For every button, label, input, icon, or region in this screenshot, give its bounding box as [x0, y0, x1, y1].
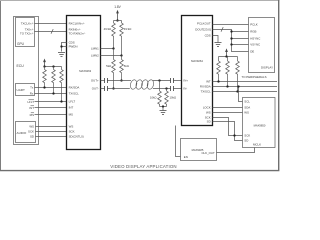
node R3-OUT-: [112, 87, 114, 89]
wire WS to DAC: [213, 112, 243, 114]
svg-text:SD: SD: [244, 139, 248, 143]
ground CDS deserializer: [215, 43, 222, 47]
svg-text:SD: SD: [207, 120, 211, 124]
resistor pullup R-SCL2: [236, 57, 240, 92]
svg-text:5kΩ: 5kΩ: [106, 64, 111, 68]
deserializer U2 MAX9264: [182, 16, 213, 126]
wire IN+ line: [153, 80, 171, 82]
node LMN1: [112, 47, 114, 49]
svg-text:5kΩ: 5kΩ: [124, 64, 129, 68]
node R-SDA2: [226, 85, 228, 87]
svg-text:TO RXIN2+/-: TO RXIN2+/-: [69, 32, 86, 36]
wire DOUT bus: [213, 30, 249, 52]
svg-text:OUT-: OUT-: [92, 87, 99, 91]
svg-text:MS: MS: [30, 113, 34, 117]
svg-text:PCLK: PCLK: [250, 23, 258, 27]
UART: [16, 84, 35, 96]
supply 1.8V: [114, 5, 121, 9]
resistor pullup R-SCL: [52, 67, 56, 94]
svg-text:SD(CNTL0): SD(CNTL0): [69, 135, 84, 139]
ground 10k: [162, 107, 164, 111]
resistor pullup R-SDA: [43, 67, 47, 88]
wire CDS deserializer: [213, 36, 219, 43]
wire TXCLK: [35, 23, 67, 25]
wire OUT+: [101, 80, 105, 82]
svg-text:Tx: Tx: [30, 85, 34, 89]
supply arrow left pullup rail: [43, 59, 46, 67]
wire 10k join: [160, 106, 167, 108]
svg-text:HSYNC: HSYNC: [250, 36, 260, 40]
svg-text:PWDN: PWDN: [69, 45, 78, 49]
svg-text:MAX9263: MAX9263: [79, 69, 91, 73]
svg-text:10kΩ: 10kΩ: [150, 96, 157, 100]
resistor R3 5k: [106, 49, 115, 89]
wire SDA branch to DAC SCL: [239, 87, 243, 102]
wire pullup rail: [45, 66, 62, 68]
svg-text:AUDIO: AUDIO: [17, 131, 27, 135]
svg-text:GPU: GPU: [17, 42, 25, 46]
svg-text:MAX9850: MAX9850: [254, 124, 266, 128]
svg-text:CDS: CDS: [205, 34, 211, 38]
svg-text:TXCLK+/-: TXCLK+/-: [21, 21, 34, 25]
node R-INT2: [217, 80, 219, 82]
wire SCL out: [213, 91, 278, 93]
svg-text:SDA: SDA: [244, 106, 250, 110]
capacitor C3: [171, 78, 174, 83]
svg-text:MAX9264: MAX9264: [191, 59, 203, 63]
node R-SCL2: [236, 90, 238, 92]
node pullup joints: [43, 86, 45, 88]
svg-text:SCK: SCK: [28, 130, 34, 134]
display box: [249, 18, 275, 73]
svg-text:49.9Ω: 49.9Ω: [104, 27, 112, 31]
svg-text:WS: WS: [69, 125, 74, 129]
GPU: [16, 18, 35, 47]
resistor R1 49.9: [104, 21, 116, 49]
wire CDS tie: [62, 43, 67, 52]
wire OUT-: [101, 88, 105, 90]
node INT label: [29, 106, 34, 110]
svg-text:RX/SDA: RX/SDA: [69, 86, 80, 90]
wire UART Rx/SCL: [35, 93, 67, 95]
wire SD to DAC: [213, 122, 243, 141]
supply arrow right pullup rail: [225, 48, 228, 56]
svg-text:TX/SCL: TX/SCL: [69, 92, 80, 96]
svg-text:LFLT: LFLT: [69, 100, 76, 104]
resistor R5 10k: [150, 81, 161, 107]
svg-text:INT: INT: [206, 80, 211, 84]
svg-text:10kΩ: 10kΩ: [170, 96, 177, 100]
svg-text:49.9Ω: 49.9Ω: [124, 27, 132, 31]
svg-text:EN: EN: [184, 155, 188, 159]
wire IN- line: [153, 88, 171, 90]
svg-text:LMN2: LMN2: [91, 54, 99, 58]
wire right rail: [219, 56, 238, 58]
svg-text:SCK: SCK: [244, 134, 250, 138]
svg-text:DE: DE: [250, 49, 254, 53]
wire SCK to DAC: [213, 118, 243, 136]
svg-text:SCL: SCL: [244, 100, 250, 104]
svg-text:SD: SD: [30, 135, 34, 139]
node 10k IN-: [165, 87, 167, 89]
node right rail: [225, 55, 227, 57]
border frame: [0, 0, 280, 171]
svg-text:WS: WS: [244, 111, 249, 115]
ground CDS serializer: [58, 53, 65, 57]
node LMN2: [120, 54, 122, 56]
wire SDA out: [213, 86, 278, 88]
resistor R6 10k: [165, 89, 176, 107]
wire UART Tx/SDA: [35, 87, 67, 89]
svg-text:DOUT[23:0]: DOUT[23:0]: [195, 27, 211, 31]
clock generator U4 MAX9485: [181, 139, 217, 161]
svg-text:INT: INT: [29, 106, 34, 110]
svg-text:TX/SCL: TX/SCL: [201, 90, 212, 94]
AUDIO: [16, 122, 36, 143]
svg-text:LFLT: LFLT: [27, 100, 34, 104]
resistor pullup R-SDA2: [226, 57, 230, 87]
svg-text:LOCK: LOCK: [203, 106, 211, 110]
svg-text:MCLK: MCLK: [253, 142, 261, 146]
node R4-OUT+: [120, 79, 122, 81]
wire MS: [35, 114, 67, 116]
svg-text:UART: UART: [17, 88, 25, 92]
wire LMN2: [101, 55, 122, 57]
svg-text:DISPLAY: DISPLAY: [261, 66, 273, 70]
wire 1.8V rail: [114, 20, 122, 22]
resistor pullup R-LFLT: [60, 67, 64, 102]
svg-text:PCLKOUT: PCLKOUT: [197, 21, 211, 25]
svg-text:VIDEO DISPLAY APPLICATION: VIDEO DISPLAY APPLICATION: [110, 164, 176, 169]
svg-text:CLK_OUT: CLK_OUT: [201, 151, 215, 155]
svg-text:RX/SDA: RX/SDA: [200, 85, 211, 89]
node 10k join: [162, 105, 164, 107]
serializer U1 MAX9263: [67, 16, 101, 150]
wire LOCK to DAC SDA: [213, 107, 243, 109]
svg-text:LMN1: LMN1: [91, 47, 99, 51]
twisted pair cable: [129, 79, 154, 90]
node rail joints: [43, 65, 45, 67]
wire TX bus: [35, 31, 67, 33]
svg-text:INT: INT: [69, 106, 74, 110]
capacitor C4: [171, 86, 174, 91]
svg-text:MS: MS: [69, 113, 73, 117]
svg-text:WS: WS: [206, 111, 211, 115]
wire LFLT: [35, 101, 67, 103]
svg-text:RXCLKIN+/-: RXCLKIN+/-: [69, 21, 85, 25]
svg-text:IN+: IN+: [183, 79, 188, 83]
svg-text:IN-: IN-: [183, 87, 187, 91]
wire EN: [176, 126, 181, 157]
svg-text:VSYNC: VSYNC: [250, 43, 260, 47]
resistor R2 49.9: [120, 21, 132, 56]
ECU box: [14, 17, 39, 145]
wire WS: [36, 126, 67, 128]
node LFLT label: [27, 100, 34, 104]
svg-text:Rx: Rx: [30, 92, 34, 96]
svg-text:OUT+: OUT+: [91, 79, 99, 83]
wire CLK_OUT to MCLK: [217, 148, 255, 153]
wire PCLKOUT: [213, 24, 249, 26]
resistor pullup R-INT2: [217, 57, 221, 82]
node MS label: [30, 113, 34, 117]
capacitor C1: [105, 78, 108, 83]
capacitor C2: [105, 86, 108, 91]
svg-text:1.8V: 1.8V: [114, 5, 121, 9]
wire SCK: [36, 131, 67, 133]
wire SD: [36, 136, 67, 138]
node 10k IN+: [158, 79, 160, 81]
svg-text:SCK: SCK: [69, 130, 75, 134]
node bus branches: [230, 30, 232, 32]
node SDA branch: [237, 85, 239, 87]
node SCK-SD cross: [233, 134, 235, 136]
wire INT out: [213, 81, 278, 83]
svg-text:TO TX2+/-: TO TX2+/-: [20, 31, 34, 35]
svg-text:ECU: ECU: [17, 64, 25, 68]
resistor R4 5k: [120, 56, 129, 81]
svg-text:TO PERIPHERALS: TO PERIPHERALS: [242, 75, 267, 79]
svg-text:RGB: RGB: [250, 29, 256, 33]
node CDS joint: [60, 45, 62, 47]
wire INT: [35, 107, 67, 109]
wire LMN1: [101, 48, 114, 50]
svg-text:WS: WS: [29, 125, 34, 129]
audio DAC U3 MAX9850: [243, 98, 276, 148]
